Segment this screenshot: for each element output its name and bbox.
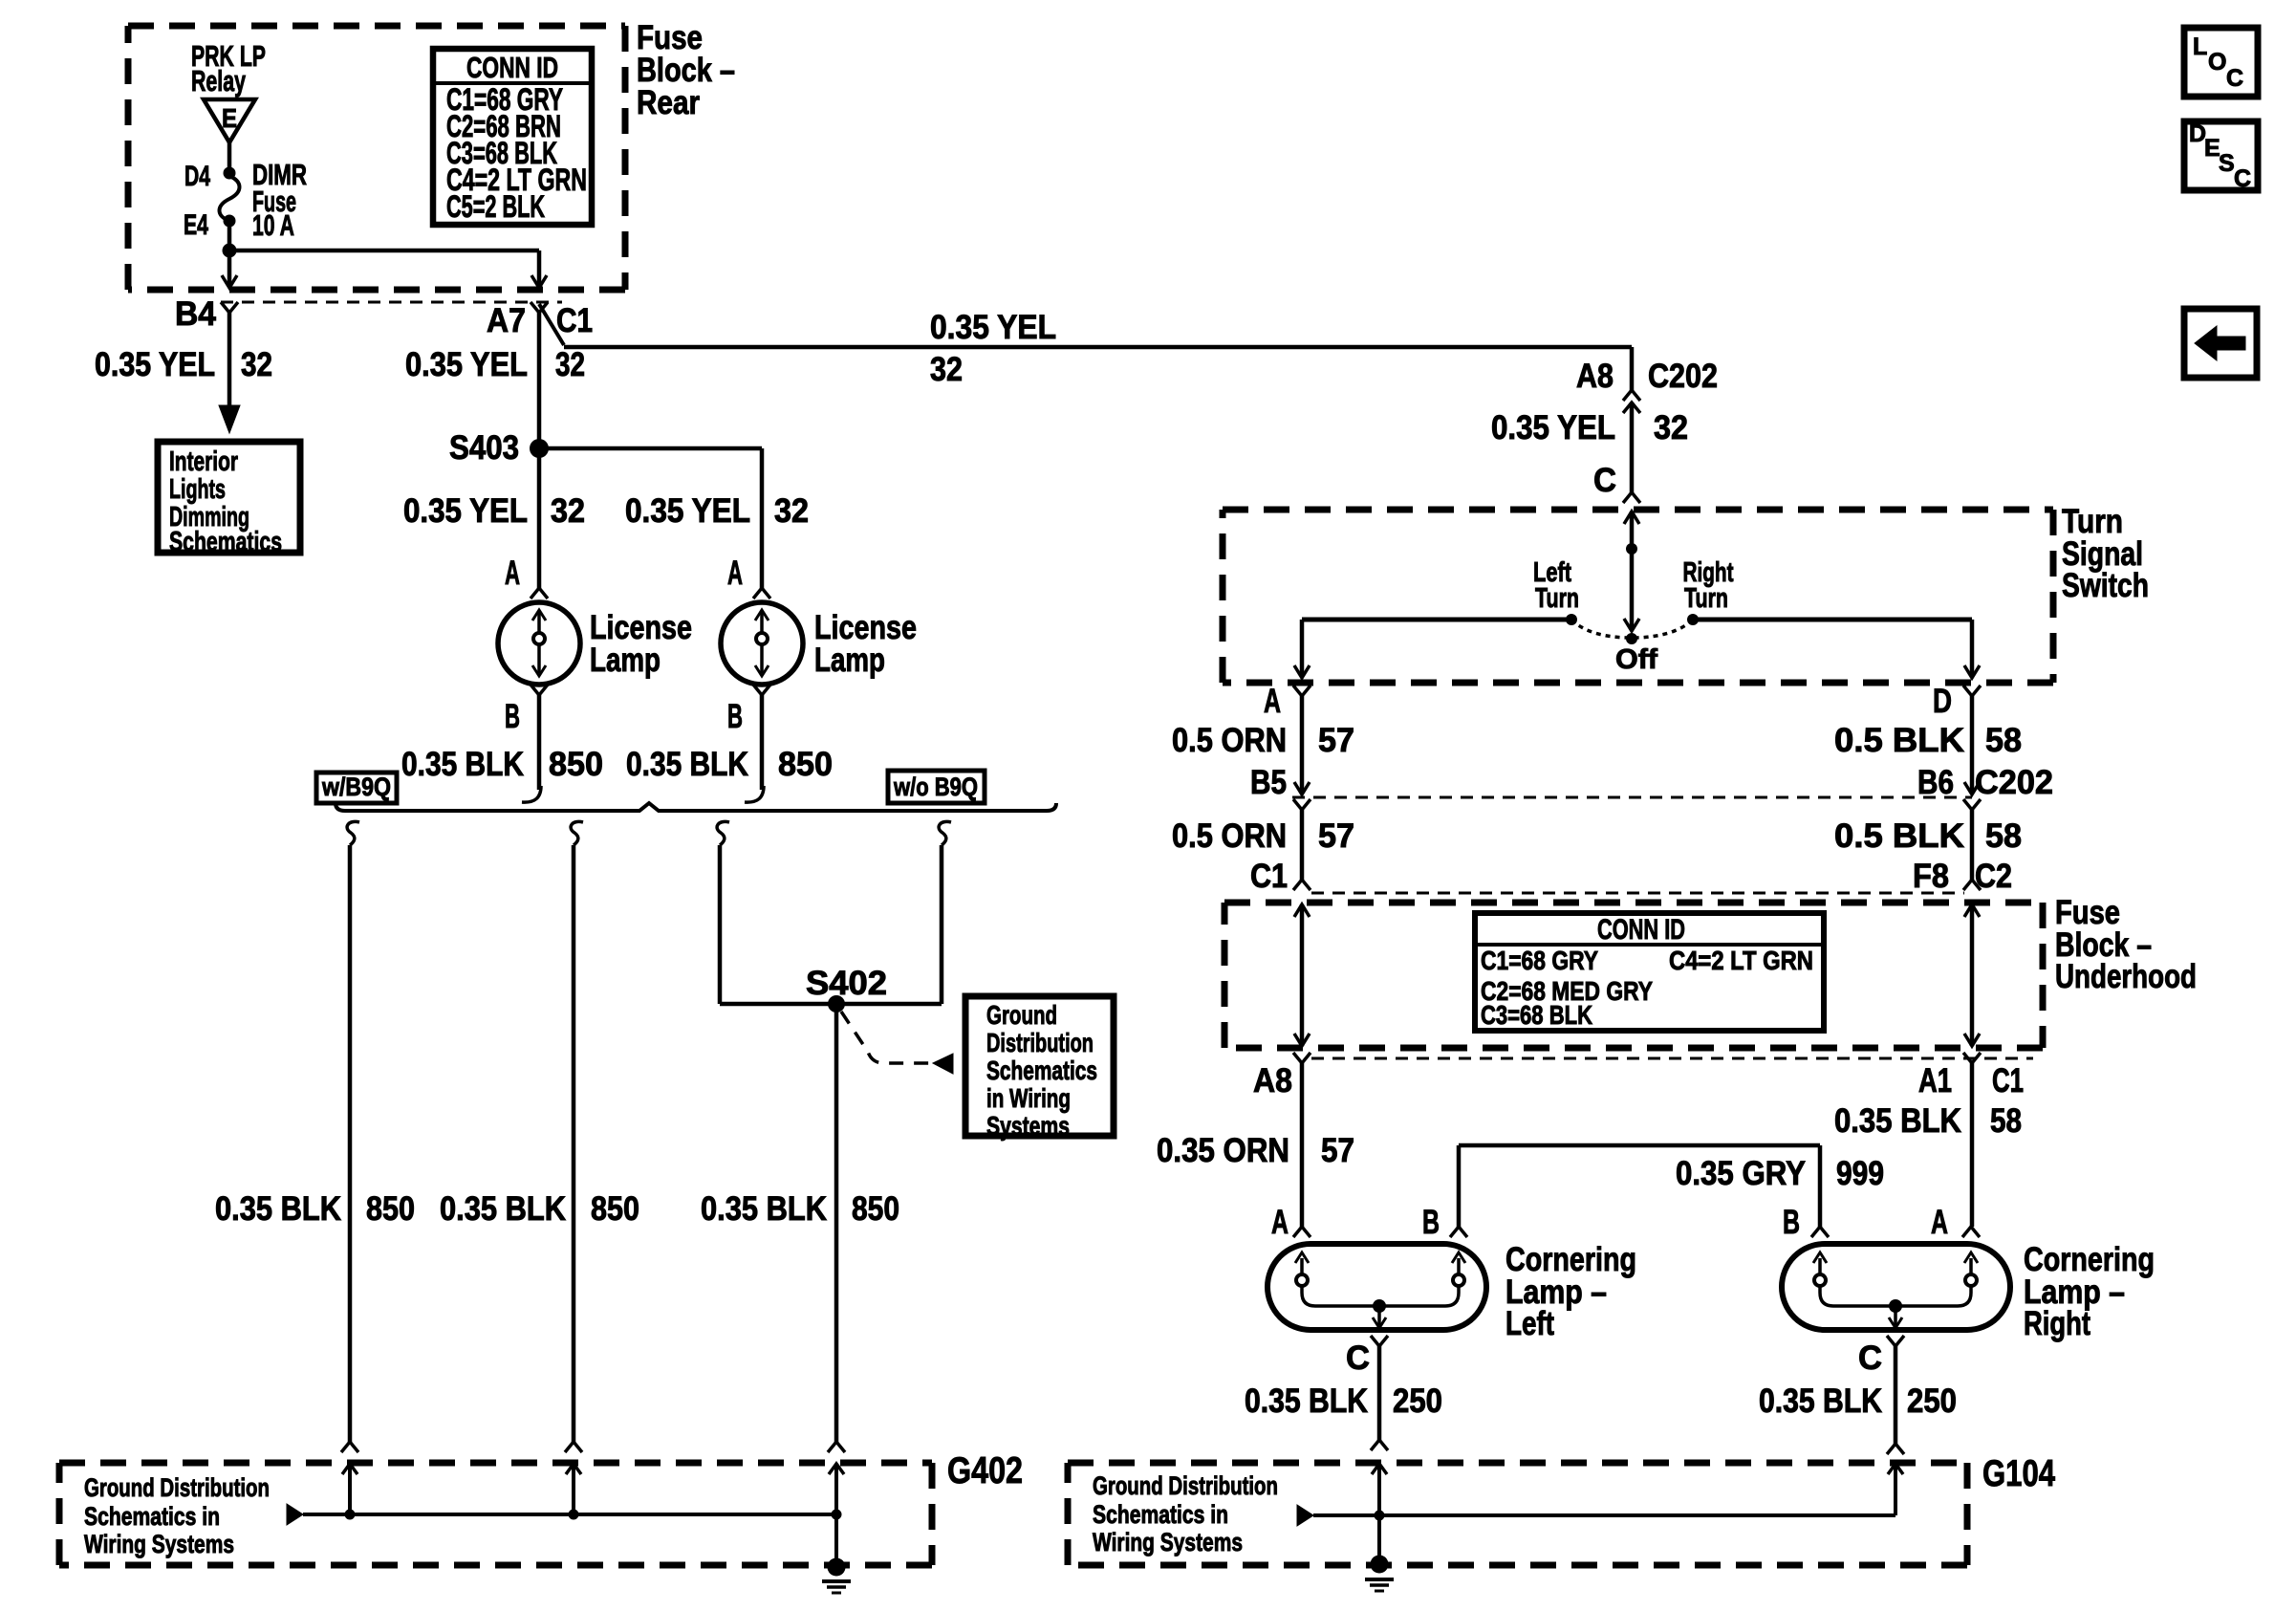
ground G402 (earth symbol) (822, 1514, 851, 1593)
label Cornering Lamp - Right (2024, 1241, 2155, 1342)
svg-text:0.5 ORN: 0.5 ORN (1172, 722, 1287, 759)
svg-text:0.35 BLK: 0.35 BLK (1834, 1102, 1961, 1140)
wire S402 to G402 (834, 1004, 839, 1442)
switch throw arc (dashed) (1571, 620, 1693, 638)
ground bus wire in G104 (1297, 1505, 1895, 1526)
in-line connector C202 (dashed line) (1292, 796, 1972, 799)
junction node S402wire-G402 (832, 1510, 842, 1520)
svg-text:250: 250 (1907, 1382, 1957, 1420)
svg-text:Ground Distribution: Ground Distribution (84, 1473, 270, 1502)
note text Ground Distribution Schematics in Wiring Systems (G402) (84, 1473, 270, 1558)
connector pin B6 C202 (1917, 764, 2053, 810)
leader from S402 to note (dashed) (841, 1012, 953, 1074)
connector line (thin dashed) below underhood fuse block (1311, 1057, 2033, 1060)
svg-text:0.35 BLK: 0.35 BLK (215, 1190, 341, 1228)
svg-text:w/B9Q: w/B9Q (321, 773, 391, 801)
svg-text:A8: A8 (1253, 1062, 1292, 1099)
svg-text:S402: S402 (806, 965, 887, 1002)
lamp License Lamp (bulb symbol) (498, 602, 580, 685)
svg-text:D4: D4 (184, 161, 210, 192)
svg-text:CONN ID: CONN ID (1597, 914, 1685, 946)
wire branch 3 (w/o B9Q) to S402 (717, 821, 729, 1004)
wire 0.35 YEL 32 to left license lamp (403, 448, 585, 588)
svg-text:F8: F8 (1913, 858, 1949, 895)
note box: Interior Lights Dimming Schematics (158, 442, 300, 557)
connector pin A of license lamp (505, 555, 548, 599)
svg-text:Ground: Ground (986, 1000, 1057, 1030)
connector pin A1 C1 below underhood fuse block (1918, 1053, 2024, 1099)
ground box G104 (dashed) (1068, 1460, 1967, 1467)
wire 0.35 ORN 57 to cornering lamp left (1157, 1063, 1354, 1227)
in-line connector C202 pin A8 (1576, 358, 1718, 413)
wire 0.35 YEL 32 long run C1 to C202 (564, 309, 1632, 390)
label License Lamp (left) (590, 609, 692, 679)
CONN ID table (Fuse Block - Underhood) (1475, 913, 1824, 1031)
svg-text:Rear: Rear (637, 84, 700, 121)
wire label 0.35 BLK 850 (branch 2) (440, 1190, 639, 1228)
svg-text:B4: B4 (175, 295, 217, 333)
lamp Cornering Lamp (dual filament) (1782, 1244, 2010, 1330)
ground bus wire in G402 (287, 1504, 836, 1525)
svg-text:L: L (2193, 33, 2207, 60)
svg-text:A: A (505, 555, 520, 592)
svg-text:G402: G402 (947, 1450, 1023, 1491)
svg-text:0.35 BLK: 0.35 BLK (626, 746, 748, 783)
svg-text:32: 32 (774, 492, 809, 530)
connector pin A7 / C1 (487, 302, 593, 345)
junction node leftC-G104 (1375, 1511, 1385, 1521)
connector pin A of cornering lamp (1931, 1204, 1980, 1241)
svg-text:0.35 ORN: 0.35 ORN (1157, 1132, 1289, 1169)
note box: Ground Distribution Schematics in Wiring Systems (S402) (965, 996, 1114, 1141)
svg-text:Right: Right (2024, 1305, 2090, 1342)
wire 0.35 GRY 999 between cornering lamps (1459, 1145, 1884, 1227)
wire branch 2 (w/B9Q) to G402 (571, 821, 583, 1442)
svg-text:32: 32 (930, 351, 963, 388)
svg-text:32: 32 (551, 492, 585, 530)
svg-text:Schematics in: Schematics in (1093, 1500, 1228, 1529)
svg-text:Lamp: Lamp (590, 642, 661, 679)
wire label 0.35 BLK 850 (left lamp) (401, 746, 603, 783)
switch contact Left Turn (1533, 557, 1579, 625)
wire 0.5 ORN 57 (A to B5) (1172, 696, 1354, 792)
svg-text:850: 850 (549, 746, 603, 783)
svg-text:CONN ID: CONN ID (466, 51, 558, 84)
fuse DIMR Fuse 10 A (220, 158, 308, 242)
svg-text:850: 850 (778, 746, 833, 783)
svg-text:C1: C1 (1250, 858, 1288, 895)
svg-text:Lights: Lights (169, 474, 226, 505)
relay PRK LP Relay (triangle symbol) (191, 39, 266, 142)
wire label 0.35 BLK 850 (right lamp) (626, 746, 833, 783)
wire fuse to junction (227, 221, 232, 250)
svg-text:58: 58 (1985, 817, 2022, 855)
wire relay to fuse (227, 141, 232, 173)
svg-text:0.35 YEL: 0.35 YEL (403, 492, 528, 530)
svg-text:Interior: Interior (169, 446, 238, 477)
wire 0.35 YEL 32 from A7 to S403 (405, 313, 585, 449)
wire 0.5 BLK 58 (D to B6) (1834, 696, 2022, 792)
connector pin A of turn signal switch (1264, 683, 1310, 720)
node D4 (224, 167, 236, 180)
connector line C1 of rear fuse block (thin dashed) (221, 301, 562, 304)
icon box DESC (2184, 120, 2258, 192)
svg-text:32: 32 (241, 346, 272, 383)
svg-text:250: 250 (1393, 1382, 1442, 1420)
wire through underhood fuse block (left) (1294, 904, 1310, 1046)
component box: Fuse Block - Rear (dashed) (128, 23, 625, 30)
svg-text:Switch: Switch (2062, 567, 2149, 604)
svg-text:Wiring Systems: Wiring Systems (1093, 1528, 1243, 1557)
svg-text:A1: A1 (1918, 1062, 1952, 1099)
svg-text:32: 32 (555, 346, 585, 383)
node on wiper feed (1626, 543, 1637, 555)
svg-text:Left: Left (1505, 1305, 1554, 1342)
connector pin C of turn signal switch (1593, 462, 1640, 503)
svg-text:C2: C2 (1975, 858, 2012, 895)
svg-text:Schematics in: Schematics in (84, 1502, 220, 1531)
connector pin D of turn signal switch (1933, 683, 1981, 720)
splice S403 (449, 429, 549, 467)
harness brace (336, 803, 1056, 811)
wire right turn output (1693, 620, 1980, 678)
junction node below fuse (223, 244, 237, 258)
svg-text:0.5 ORN: 0.5 ORN (1172, 817, 1287, 855)
label Fuse Block - Underhood (2055, 894, 2197, 995)
wire 0.35 YEL 32 from B4 (95, 313, 272, 405)
svg-text:S: S (2219, 150, 2235, 177)
connector pin C of cornering lamp (1887, 1336, 1904, 1346)
svg-text:C3=68 BLK: C3=68 BLK (1481, 1000, 1592, 1030)
wire label 0.35 BLK 850 (S402 output) (701, 1190, 899, 1228)
svg-text:C5=2 BLK: C5=2 BLK (446, 189, 545, 224)
svg-text:A: A (727, 555, 743, 592)
arrow to Interior Lights Dimming Schematics (219, 405, 240, 433)
switch contact Right Turn (1683, 557, 1734, 625)
svg-text:0.35 GRY: 0.35 GRY (1676, 1155, 1806, 1192)
svg-text:0.35 YEL: 0.35 YEL (930, 309, 1056, 346)
svg-text:E4: E4 (184, 209, 208, 241)
svg-text:Underhood: Underhood (2055, 958, 2197, 995)
wire branch 4 (w/o B9Q) to S402 (939, 821, 951, 1004)
svg-text:G104: G104 (1982, 1453, 2055, 1494)
connector pin F8 C2 into underhood fuse block (1913, 858, 2012, 895)
wire 0.35 YEL 32 to turn signal switch (1491, 403, 1688, 492)
svg-text:B6: B6 (1917, 764, 1954, 801)
connector pin B of license lamp (727, 685, 770, 735)
wire 0.35 BLK 850 from license lamp B (745, 695, 764, 802)
svg-text:850: 850 (591, 1190, 639, 1228)
svg-text:w/o B9Q: w/o B9Q (893, 773, 978, 801)
connector into G104 (left wire) (1371, 1440, 1388, 1515)
svg-text:Ground Distribution: Ground Distribution (1093, 1471, 1278, 1500)
svg-text:A: A (1271, 1204, 1289, 1241)
svg-text:B: B (727, 698, 743, 735)
ground G104 (earth symbol) (1365, 1515, 1394, 1591)
connector into G402 at x=875 (828, 1442, 845, 1514)
svg-text:C: C (2226, 65, 2243, 92)
svg-text:B: B (1783, 1204, 1800, 1241)
svg-text:58: 58 (1985, 722, 2022, 759)
option label w/o B9Q (888, 771, 985, 803)
connector line (thin dashed) above underhood fuse block (1311, 892, 1964, 895)
wire 0.35 BLK 850 from license lamp B (522, 695, 541, 802)
svg-text:57: 57 (1321, 1132, 1354, 1169)
svg-text:C: C (1346, 1339, 1370, 1377)
label Fuse Block - Rear (637, 19, 735, 121)
svg-text:999: 999 (1836, 1155, 1884, 1192)
svg-text:C1: C1 (1992, 1062, 2024, 1099)
svg-text:C: C (1858, 1339, 1882, 1377)
svg-text:0.5 BLK: 0.5 BLK (1834, 817, 1964, 855)
icon box LOC (2184, 28, 2258, 97)
svg-text:D: D (1933, 683, 1952, 720)
junction node branch2-G402 (569, 1510, 579, 1520)
note text Ground Distribution Schematics in Wiring Systems (G104) (1093, 1471, 1278, 1557)
svg-text:B: B (1422, 1204, 1440, 1241)
connector pin C of cornering lamp (1371, 1336, 1388, 1346)
svg-text:32: 32 (1654, 409, 1688, 446)
lamp License Lamp (bulb symbol) (721, 602, 803, 685)
wire 0.35 BLK 58 to cornering lamp right (1834, 1063, 2022, 1227)
svg-text:0.35 BLK: 0.35 BLK (401, 746, 524, 783)
svg-text:C202: C202 (1975, 764, 2053, 801)
wire label 0.35 BLK 850 (branch 1) (215, 1190, 415, 1228)
component box: Fuse Block - Underhood (dashed) (1224, 900, 2043, 906)
connector into G104 (right wire) (1887, 1444, 1904, 1515)
svg-text:57: 57 (1318, 722, 1354, 759)
svg-text:C1: C1 (556, 302, 593, 339)
connector pin A of license lamp (727, 555, 770, 599)
wire left turn output (1294, 620, 1571, 678)
svg-text:A7: A7 (487, 302, 526, 339)
svg-text:C: C (2234, 165, 2251, 192)
svg-text:Systems: Systems (986, 1111, 1070, 1141)
wire junction to B4 (arrow into box edge) (222, 250, 237, 288)
svg-text:0.35 BLK: 0.35 BLK (701, 1190, 827, 1228)
ground box G402 (dashed) (59, 1460, 932, 1467)
svg-text:850: 850 (852, 1190, 899, 1228)
connector pin B of cornering lamp (1783, 1204, 1829, 1241)
svg-text:B: B (505, 698, 520, 735)
splice S402 (720, 965, 942, 1012)
label Turn Signal Switch (2062, 503, 2149, 604)
switch position Off (contact) (1615, 633, 1657, 675)
svg-text:Relay: Relay (191, 64, 247, 98)
svg-text:A: A (1264, 683, 1281, 720)
svg-text:Turn: Turn (1535, 583, 1579, 614)
label Cornering Lamp - Left (1505, 1241, 1636, 1342)
connector pin B4 (175, 295, 238, 333)
wire branch 1 (w/B9Q) to G402 (347, 821, 359, 1442)
svg-text:Schematics: Schematics (986, 1056, 1097, 1085)
wire 0.5 ORN 57 (B5 to C1) (1172, 810, 1354, 880)
svg-text:Wiring Systems: Wiring Systems (84, 1530, 234, 1558)
wire 0.5 BLK 58 (B6 to F8) (1834, 810, 2022, 880)
svg-text:S403: S403 (449, 429, 519, 467)
svg-text:in Wiring: in Wiring (986, 1083, 1071, 1113)
svg-text:58: 58 (1990, 1102, 2022, 1140)
svg-text:0.35 YEL: 0.35 YEL (1491, 409, 1615, 446)
wire 0.35 BLK 250 (left cornering lamp C) (1245, 1339, 1442, 1440)
lamp Cornering Lamp (dual filament) (1267, 1244, 1486, 1330)
connector pin B of license lamp (505, 685, 548, 735)
label License Lamp (right) (814, 609, 917, 679)
svg-text:0.35 BLK: 0.35 BLK (440, 1190, 566, 1228)
svg-text:A8: A8 (1576, 358, 1614, 395)
svg-text:10 A: 10 A (252, 208, 294, 242)
connector pin B5 (1250, 764, 1310, 810)
connector pin C1 into underhood fuse block (1250, 858, 1310, 895)
svg-text:Lamp: Lamp (814, 642, 885, 679)
svg-text:Turn: Turn (1684, 583, 1728, 614)
junction node branch1-G402 (345, 1510, 356, 1520)
switch wiper feed wire (1624, 512, 1639, 631)
option label w/B9Q (316, 773, 397, 803)
svg-text:850: 850 (366, 1190, 415, 1228)
wire through underhood fuse block (right) (1964, 904, 1980, 1046)
connector into G402 at x=600 (565, 1442, 582, 1514)
svg-text:0.35 BLK: 0.35 BLK (1245, 1382, 1368, 1420)
wire S403 branch to right lamp (539, 448, 762, 588)
svg-text:0.5 BLK: 0.5 BLK (1834, 722, 1964, 759)
wire junction to A7 (229, 250, 547, 288)
connector pin A8 below underhood fuse block (1253, 1053, 1310, 1099)
CONN ID table (Fuse Block - Rear) (433, 49, 592, 225)
svg-text:C1=68 GRY: C1=68 GRY (1481, 946, 1598, 975)
svg-text:0.35 YEL: 0.35 YEL (625, 492, 750, 530)
svg-text:B5: B5 (1250, 764, 1287, 801)
connector pin B of cornering lamp (1422, 1204, 1467, 1241)
svg-text:C202: C202 (1648, 358, 1718, 395)
svg-text:0.35 YEL: 0.35 YEL (405, 346, 528, 383)
svg-text:0.35 BLK: 0.35 BLK (1759, 1382, 1882, 1420)
svg-text:E: E (222, 103, 237, 133)
svg-text:A: A (1931, 1204, 1948, 1241)
svg-text:C: C (1593, 462, 1616, 499)
svg-text:Schematics: Schematics (169, 527, 282, 557)
svg-text:Distribution: Distribution (986, 1028, 1094, 1057)
component box: Turn Signal Switch (dashed) (1223, 507, 2053, 513)
svg-text:0.35 YEL: 0.35 YEL (95, 346, 215, 383)
svg-text:O: O (2208, 49, 2226, 76)
svg-text:57: 57 (1318, 817, 1354, 855)
wire label 0.35 YEL 32 right lamp (625, 492, 809, 530)
node E4 (224, 215, 236, 228)
svg-text:C4=2 LT GRN: C4=2 LT GRN (1669, 946, 1813, 975)
connector into G402 at x=366 (341, 1442, 358, 1514)
connector pin A of cornering lamp (1271, 1204, 1310, 1241)
icon box back-arrow (2184, 309, 2257, 378)
wire 0.35 BLK 250 (right cornering lamp C) (1759, 1339, 1957, 1444)
svg-text:Off: Off (1615, 644, 1657, 675)
